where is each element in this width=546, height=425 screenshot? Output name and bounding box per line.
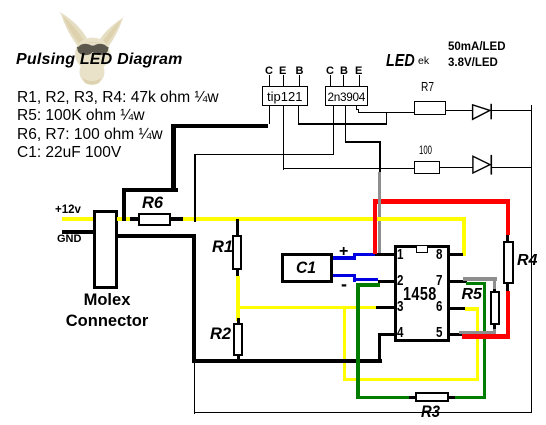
pin 4 stub [378, 333, 395, 336]
transistor Q1 tip121 [262, 86, 308, 106]
pin 3 stub [376, 306, 394, 309]
Molex label [60, 291, 154, 310]
resistor R2 bottom stub [237, 355, 240, 361]
wire LED2 to bus [492, 167, 531, 168]
pin 1 number [397, 247, 403, 263]
wire red top [373, 199, 510, 203]
resistor R1 label [212, 238, 233, 257]
left frame wire [194, 362, 195, 414]
IC notch [416, 245, 429, 253]
thick wire +12v tap vertical [122, 188, 127, 221]
wire gray from Q2 base node [378, 172, 381, 253]
resistor R5 [493, 287, 496, 292]
resistor R1 [232, 235, 242, 270]
LED D1 [470, 101, 494, 122]
resistor R1 bottom stub [236, 270, 239, 277]
wire red bottom [462, 334, 510, 338]
resistor R6 label [142, 194, 163, 213]
pin 7 number [436, 273, 442, 289]
resistor R2 [233, 323, 243, 356]
Q1 pin stub C [269, 75, 270, 86]
wire gray R5 bottom [493, 329, 496, 335]
pin 7 stub [450, 280, 467, 283]
wire R7 to LED1 [446, 110, 472, 111]
resistor R4 [506, 235, 509, 242]
wire blue minus [333, 274, 356, 277]
wire Q1 base horizontal [298, 123, 387, 124]
pin 6 stub [450, 307, 466, 310]
wire green to R3 [356, 396, 409, 400]
wire down to +12v rail [194, 154, 195, 222]
parts list text [17, 89, 219, 163]
wire gray pin7 [463, 277, 497, 280]
Q1 pin stub B [299, 75, 300, 86]
resistor R6 left stub [129, 217, 139, 220]
minus label [341, 274, 347, 295]
wire red vertical left [373, 199, 377, 254]
capacitor C1 [281, 253, 333, 283]
wire yellow rail main [183, 217, 465, 221]
wire red right upper [506, 199, 510, 235]
wire Q2 collector horizontal [194, 154, 334, 155]
wire Q1 emitter to 100 ohm [283, 168, 415, 169]
plus label [339, 243, 348, 261]
resistor R6 [138, 213, 171, 227]
wire green pin7 [466, 282, 483, 286]
LED ek heading [386, 50, 415, 71]
wire +12v yellow left [62, 217, 93, 221]
Q2 pin stub B [343, 75, 344, 86]
wire yellow pin6 [465, 307, 477, 310]
wire GND down [192, 234, 196, 363]
wire 100 to LED2 [440, 167, 473, 168]
bottom frame wire [194, 412, 533, 413]
wire green vertical left [356, 283, 360, 399]
moth logo [50, 6, 134, 88]
wire green R3 right [455, 396, 486, 400]
resistor 100 [414, 161, 440, 174]
pin 8 number [436, 247, 442, 263]
pin 6 number [436, 299, 442, 315]
pin 2 number [397, 273, 403, 289]
+12v label [55, 204, 81, 216]
Q1 pin stub E [283, 75, 284, 86]
wire yellow down to pin8 [462, 217, 466, 256]
wire GND right [117, 234, 196, 238]
Molex connector [93, 210, 118, 289]
LED D2 [470, 153, 494, 176]
wire yellow bottom [343, 378, 479, 381]
pin 5 stub [450, 333, 464, 336]
pin 8 stub [450, 253, 463, 256]
wire blue plus [333, 256, 356, 259]
wire Q2 base down [345, 106, 346, 143]
pin 3 number [397, 299, 403, 315]
resistor R4 label [517, 252, 537, 270]
thick wire horizontal upper [122, 188, 179, 193]
thick wire to Q1 collector [171, 124, 268, 128]
pin 1 stub [375, 253, 395, 256]
resistor R1 top stub [236, 219, 239, 236]
pin 2 stub [378, 280, 395, 283]
wire node down to gray [379, 141, 380, 173]
wire yellow junction to pin3 [236, 306, 376, 309]
wire Q2 base horizontal [345, 141, 381, 142]
resistor R7 label [421, 79, 434, 94]
wire riser to R7 node [386, 112, 387, 124]
wire LED1 to bus [492, 110, 531, 111]
Q2 pin stub E [359, 75, 360, 86]
IC U1 1458 [394, 245, 450, 343]
wire red right lower [506, 291, 510, 339]
wire Q1 collector down [269, 106, 270, 125]
wire yellow rail mid [117, 217, 130, 221]
wire Q1 base down [298, 106, 299, 125]
transistor Q1 pin letters C E B [265, 65, 273, 77]
wire green vertical right [483, 282, 487, 400]
transistor Q2 2n3904 [325, 86, 368, 106]
transistor Q2 pin letters C B E [326, 65, 334, 77]
pin 4 leg [378, 333, 381, 362]
resistor R3 [409, 396, 416, 399]
GND label [57, 233, 81, 245]
pin 5 number [436, 325, 442, 341]
title [16, 51, 183, 69]
wire Q1 emitter down long [283, 106, 284, 170]
resistor R6 right stub [171, 217, 183, 220]
resistor R2 label [210, 325, 231, 344]
resistor R7 [414, 101, 446, 115]
wire Q2 collector down [333, 106, 334, 155]
resistor R5 label [462, 286, 482, 304]
wire GND bus bottom [192, 359, 382, 363]
wire green start [356, 283, 380, 286]
resistor R3 label [421, 403, 440, 422]
Q2 pin stub C [330, 75, 331, 86]
wire yellow R1 to junction [236, 276, 239, 321]
thick wire vertical mid [171, 124, 176, 193]
wire yellow mid vertical [343, 306, 346, 381]
wire Q2 emitter jog [356, 106, 357, 111]
resistor R2 top stub [237, 318, 240, 324]
wire GND left [62, 230, 93, 234]
wire Q2 emitter to R7 [358, 112, 415, 113]
resistor 100 label [419, 143, 432, 157]
pin 4 number [397, 325, 403, 341]
LED return bus vertical [531, 105, 532, 413]
